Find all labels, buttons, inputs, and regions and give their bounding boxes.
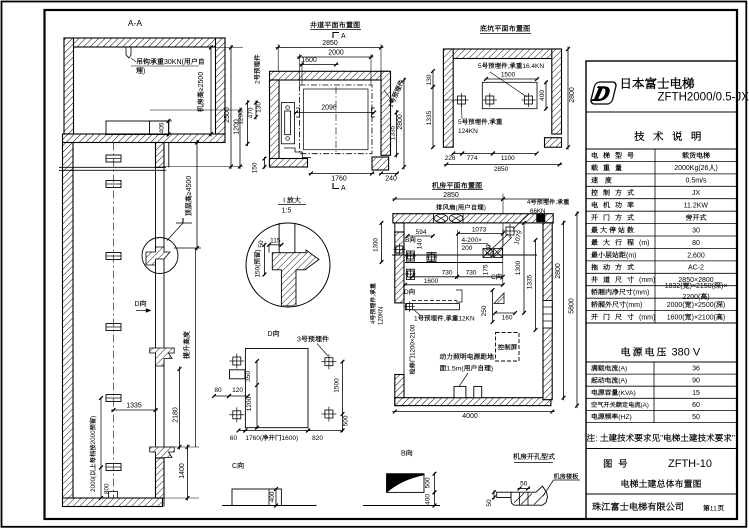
svg-text:2000(: 2000( (667, 302, 686, 309)
shaft plan title (310, 21, 360, 28)
detail I label underline (278, 204, 306, 206)
svg-text:I: I (283, 198, 285, 205)
C view label (232, 462, 244, 470)
landing bracket hatched (bottom) (150, 447, 175, 465)
leader 5hao to plates (490, 72, 527, 97)
dim 1200 vertical left (238, 110, 245, 125)
svg-text:1335: 1335 (426, 110, 433, 125)
company name bottom (592, 502, 683, 511)
detail I label (283, 197, 301, 205)
svg-text:66KN: 66KN (530, 208, 545, 215)
detail I scale 1:5 (282, 208, 292, 215)
pit plan title underline (480, 33, 531, 35)
machine room right wall (A-A) (216, 38, 226, 134)
opening detail title (513, 453, 554, 459)
svg-text:2000: 2000 (90, 430, 97, 445)
machine room top wall (A-A) (64, 38, 225, 47)
landing bracket hatched (mid) (150, 348, 175, 366)
label 66KN (530, 208, 545, 215)
svg-text::: : (595, 433, 597, 443)
label D-dir (plan) (404, 289, 415, 296)
svg-text:30: 30 (692, 227, 700, 234)
spec row line 7 (586, 235, 737, 237)
buffer block at pit floor (109, 492, 118, 499)
svg-text:774: 774 (467, 155, 478, 162)
svg-text:D: D (135, 301, 140, 308)
cable box 1 on bottom wall (454, 386, 466, 397)
label slab (jifang louban) (554, 473, 578, 479)
machine room height dim line (210, 45, 212, 137)
label 2-hao embedment (rotated) (254, 55, 261, 84)
power row line 5 (586, 422, 737, 424)
spec row 11 value (678, 277, 713, 284)
dim 5800 rotated machine plan right (576, 211, 578, 408)
svg-text:120KN: 120KN (379, 307, 385, 325)
extension line right for 2850 (380, 44, 382, 72)
title block outer box (586, 61, 737, 519)
dim extension line right of holes (502, 229, 504, 285)
svg-text:1335: 1335 (527, 274, 534, 289)
dim 1073 (457, 233, 504, 235)
svg-text:): ) (90, 416, 97, 418)
svg-text:124KN: 124KN (458, 128, 478, 135)
small sill mark bottom of shaft area (456, 290, 462, 302)
hole edge lines (519, 492, 521, 505)
extension lines right of machine room (216, 47, 244, 49)
svg-text:80: 80 (692, 240, 700, 247)
spec row 2 label 载重量 (591, 164, 621, 170)
D view anchor plate top-left (233, 357, 241, 365)
power table divider (653, 362, 655, 423)
car inner size value line2 (overflow) (682, 293, 709, 301)
dim 2180 vertical (179, 367, 181, 450)
spec row line 9 (586, 260, 737, 262)
spec table divider (654, 149, 656, 323)
svg-text:90: 90 (692, 378, 700, 385)
detail I circle (246, 223, 330, 307)
spec row line 12 (586, 297, 737, 299)
spec row 5 label 电机功率 (592, 202, 634, 208)
machine room left wall lower (395, 375, 404, 406)
detail I dim 150 (rotated) (264, 244, 266, 276)
shaft plan right wall (381, 71, 391, 155)
spec row 8 value (692, 240, 700, 247)
label 120KN rotated left (379, 307, 385, 325)
svg-text:470: 470 (248, 107, 255, 118)
power row line 3 (586, 397, 737, 399)
svg-text:820: 820 (312, 435, 323, 442)
dim 470 vertical left (248, 107, 255, 118)
svg-text:(mm): (mm) (633, 290, 649, 297)
opening detail slab outline left bar (497, 492, 511, 497)
cable box 2 on bottom wall (474, 386, 482, 397)
label 4-hao embedment 66KN line1 (527, 199, 569, 206)
B view rect (387, 474, 425, 493)
svg-text:C: C (232, 463, 237, 470)
door line across opening (403, 303, 405, 375)
C view ground line (222, 505, 317, 507)
spec row 3 value (686, 178, 708, 185)
pit bottom slab (63, 498, 163, 507)
pit plan right wall (552, 49, 562, 134)
car inner rect (304, 89, 369, 150)
machine room plan title (432, 182, 482, 189)
tech spec heading (634, 131, 701, 141)
svg-text:): ) (491, 366, 493, 373)
svg-text:1073: 1073 (472, 227, 487, 234)
svg-text:1335: 1335 (126, 403, 142, 410)
svg-text:240: 240 (486, 244, 493, 255)
power row 3 value (692, 390, 700, 397)
dim extension line mid (457, 230, 459, 279)
power row 4 label (591, 402, 649, 409)
power row 2 label (591, 377, 627, 385)
svg-text:): ) (707, 294, 709, 301)
spec row line 6 (586, 223, 737, 225)
svg-text:140: 140 (417, 238, 424, 249)
shaft centerline dashed (113, 143, 115, 499)
svg-text:50: 50 (692, 414, 700, 421)
svg-text:): ) (255, 249, 262, 251)
dim 1500 (485, 78, 539, 80)
dim 730 right (457, 276, 503, 278)
company line divider (586, 493, 737, 495)
guide rail dim 2096 (295, 112, 375, 114)
bearing plate mid (427, 253, 436, 262)
svg-text:240: 240 (385, 176, 397, 183)
shaft plan title underline (310, 29, 361, 31)
power row 4 value (692, 402, 700, 409)
spec row 7 label 最大停站数 (591, 226, 633, 232)
detail I circle callout (142, 238, 178, 274)
svg-text:B: B (401, 451, 406, 458)
spec row 4 value (692, 190, 701, 197)
svg-text:1300: 1300 (373, 238, 380, 252)
dim 240 (385, 176, 397, 183)
top floor height dim line 4500 (196, 140, 198, 251)
bedplate height dim 405 (168, 120, 170, 137)
svg-text:D: D (404, 289, 409, 296)
D-direction view label (elevation) (135, 300, 147, 308)
dim 1400 vertical (187, 445, 189, 501)
spec row 6 value (686, 214, 706, 221)
svg-text:A: A (341, 33, 346, 40)
svg-text:2096: 2096 (321, 105, 337, 112)
svg-text:730: 730 (442, 270, 453, 277)
1-hao embedment bar (405, 304, 459, 310)
svg-text:50: 50 (486, 499, 493, 507)
detail I wall lines (278, 223, 280, 253)
svg-text:): ) (723, 314, 725, 321)
guiderail bracket 2 (106, 181, 121, 188)
D view dim 1200 rotated (246, 396, 253, 411)
detail I dim 50 (268, 245, 270, 253)
B view label (401, 450, 412, 458)
spec row line 10 (586, 272, 737, 274)
power row 5 label (592, 413, 632, 421)
right wall louver gap (543, 301, 552, 329)
svg-text:2,600: 2,600 (687, 252, 705, 259)
svg-text:1200: 1200 (246, 396, 253, 411)
shaft right wall line pair (155, 143, 157, 499)
svg-text:A-A: A-A (128, 18, 142, 28)
svg-text:5: 5 (458, 119, 462, 126)
dim 130 vertical left (256, 102, 263, 113)
D view anchor plate bottom-left (233, 411, 241, 419)
spec row 13 label 轿厢外尺寸(mm) (591, 301, 642, 309)
C view divider (268, 489, 270, 506)
right rail bracket symbol (372, 108, 376, 117)
power row 1 value (692, 366, 700, 373)
guiderail bracket 1 (106, 155, 121, 162)
svg-text:(m): (m) (639, 240, 650, 247)
machine room left wall (A-A) (64, 38, 74, 134)
dim 140 rotated (417, 238, 424, 249)
svg-text:1400: 1400 (179, 463, 186, 479)
svg-text:50: 50 (258, 240, 265, 248)
svg-text:405: 405 (159, 122, 166, 133)
svg-text:115: 115 (270, 238, 281, 245)
counterweight rod end bottom (286, 137, 290, 141)
opening detail dim 50 vertical (493, 490, 495, 499)
spec row line 2 (586, 173, 737, 175)
spec row line 11 (586, 285, 737, 287)
svg-text:30KN(: 30KN( (164, 59, 185, 66)
pit plan top wall (446, 49, 559, 59)
dim 2800 rotated machine plan right (563, 220, 565, 400)
dim 1300 left of wall (381, 222, 383, 263)
svg-text:80: 80 (214, 387, 222, 394)
svg-text:11: 11 (710, 506, 717, 513)
label hook capacity line2 (136, 67, 145, 75)
svg-text:(mm): (mm) (639, 277, 655, 284)
power table top line (586, 361, 737, 363)
svg-text:2800: 2800 (569, 87, 576, 103)
svg-text:≥4500: ≥4500 (186, 176, 193, 196)
power row 2 value (692, 378, 700, 385)
drawing title (622, 479, 701, 487)
svg-text:ZFTH-10: ZFTH-10 (668, 458, 712, 470)
detail I dim 115 (268, 244, 283, 246)
leader 1hao plan (414, 310, 420, 315)
leader power supply (459, 373, 468, 386)
machine room left wall upper joint (395, 223, 404, 232)
svg-text:2800: 2800 (555, 263, 562, 279)
svg-text:A: A (341, 185, 346, 192)
svg-text:1600(: 1600( (667, 314, 686, 321)
svg-text:D: D (268, 331, 273, 338)
power row line 4 (586, 409, 737, 411)
section mark A top (333, 33, 339, 39)
B view ground line (363, 505, 440, 507)
svg-text:500: 500 (425, 477, 432, 488)
spec row 9 label 最小层站距(m) (591, 251, 636, 259)
label 3-hao embedment (297, 336, 329, 344)
spec row 5 value (684, 203, 709, 210)
svg-text:2000Kg(26: 2000Kg(26 (674, 165, 708, 172)
svg-text:400: 400 (269, 491, 276, 502)
svg-text:): ) (484, 205, 486, 212)
svg-text:(mm): (mm) (639, 314, 655, 321)
svg-text:5: 5 (478, 63, 482, 70)
svg-text:1600): 1600) (282, 435, 299, 442)
leader slab (543, 480, 554, 496)
underline 4-200x (462, 242, 488, 244)
shaft plan left wall (270, 80, 280, 167)
dim 2800 rotated pit right (567, 47, 569, 150)
dim 1079 diagonal (513, 229, 524, 245)
svg-text:2800: 2800 (397, 114, 404, 130)
pit plan title (480, 25, 530, 32)
extension line for 2000 right (370, 54, 372, 85)
anchor plate right (525, 96, 533, 104)
power row 5 value (692, 414, 700, 421)
spec row 7 value (692, 227, 700, 234)
spec row 14 label 开门尺寸(mm) (591, 314, 655, 322)
dim 2500 vertical (right of section) (230, 45, 232, 169)
D view dim 350 rotated (256, 360, 258, 429)
svg-text:175: 175 (483, 264, 490, 275)
label power supply line1 (440, 353, 494, 359)
B view dim 400 rotated (434, 491, 436, 506)
svg-text:1500: 1500 (501, 72, 516, 79)
label 124KN line2 (458, 128, 478, 135)
counterweight rod end top (286, 106, 290, 110)
B view dim 500 rotated (434, 473, 436, 494)
svg-text:400: 400 (539, 90, 546, 101)
svg-text:400: 400 (425, 494, 432, 505)
svg-text:60: 60 (692, 402, 700, 409)
svg-text:(HZ): (HZ) (618, 414, 632, 421)
svg-text:(mm): (mm) (626, 302, 642, 309)
svg-text:B: B (405, 237, 409, 244)
dim 1300 rotated (523, 222, 525, 314)
power row line 1 (586, 373, 737, 375)
hook leader line (131, 58, 136, 62)
extension line pit floor (164, 446, 199, 448)
label 200 line2 (462, 245, 473, 252)
svg-text:1:5: 1:5 (282, 208, 292, 215)
flag I mark (182, 218, 184, 223)
spec row 8 label 最大行程(m) (591, 239, 649, 247)
power row 3 label (592, 389, 636, 397)
D view main rect (245, 349, 308, 428)
D-direction arrow (136, 310, 146, 312)
car centerline dash-dot (335, 87, 337, 152)
svg-text:12KN: 12KN (458, 316, 475, 323)
landing slab edge line below machine slab (168, 143, 170, 168)
spec row line 4 (586, 198, 737, 200)
svg-text:130: 130 (256, 102, 263, 113)
fan symbol white box (434, 214, 464, 223)
shaft left wall (elevation) (63, 143, 74, 499)
svg-text:): ) (716, 165, 718, 172)
svg-text:≥2500: ≥2500 (198, 72, 205, 92)
D view dim 1500 rotated (342, 361, 344, 415)
drawing number value (668, 458, 712, 470)
svg-text:36: 36 (692, 366, 700, 373)
spec row 3 label 速 度 (591, 177, 611, 183)
label top floor height >=4500 (rotated) (185, 176, 193, 216)
opening detail slab main block (511, 486, 548, 505)
spec row 2 value (674, 165, 718, 173)
beam end plate left lower (406, 269, 414, 279)
D view dim 80 (214, 387, 222, 394)
svg-text:)×2500(: )×2500( (692, 302, 717, 309)
machine room floor slab (A-A) (63, 134, 226, 143)
spec row 12 label 轿厢内净尺寸(mm) (591, 289, 649, 297)
company name (622, 77, 694, 89)
fan symbol ellipses (434, 214, 448, 222)
svg-text:2000: 2000 (328, 50, 344, 57)
machine room right wall (543, 223, 552, 400)
label 1-hao embedment (rotated diagonal) (387, 79, 406, 109)
svg-text:): ) (143, 68, 145, 75)
svg-text:15: 15 (692, 390, 700, 397)
anchor plate left (458, 96, 466, 104)
dim 2800 vertical right (403, 78, 405, 170)
machine room left wall upper (395, 232, 404, 303)
D view dim 120 (232, 387, 243, 394)
dim 1760 door (309, 173, 375, 175)
machine bedplate rectangle (106, 121, 169, 135)
drawing number label (604, 459, 627, 467)
D view dim 1760 net door 1600 (245, 435, 298, 442)
anchor plate middle (486, 96, 494, 104)
dim 400 rotated (pit) (545, 81, 547, 110)
svg-text:2200(: 2200( (682, 294, 701, 301)
hoist hook (126, 47, 131, 58)
D view 80/120 dim line (213, 395, 230, 397)
car outline dashed (300, 85, 373, 154)
leader 3hao (317, 344, 328, 357)
leader 124KN (461, 104, 464, 119)
rope holes squares (4-200x200) (483, 249, 492, 258)
model number (658, 92, 749, 104)
counterweight oblong (285, 111, 291, 135)
svg-text:250: 250 (481, 305, 488, 316)
label 4-hao embedment rotated left (370, 283, 377, 324)
label slab underline (554, 479, 581, 481)
svg-text:(KVA): (KVA) (618, 390, 636, 397)
extension line left for 2850 (277, 44, 279, 72)
svg-text:730: 730 (466, 270, 477, 277)
anchor plate left wall (396, 246, 403, 253)
label machine room height >=2500 (rotated) (197, 72, 205, 112)
left spacing dim line (100, 398, 102, 498)
svg-text:60: 60 (230, 435, 238, 442)
svg-text:): ) (723, 302, 725, 309)
svg-text:1832(: 1832( (665, 283, 684, 290)
svg-text:350: 350 (245, 371, 252, 382)
spec row 13 value (667, 301, 726, 309)
svg-text:0.5m/s: 0.5m/s (686, 178, 708, 185)
svg-text:3: 3 (297, 337, 301, 344)
spec row line 3 (586, 185, 737, 187)
svg-text:(A): (A) (618, 366, 627, 373)
logo outline and glyph (590, 82, 617, 106)
spec row 9 value (687, 252, 705, 259)
svg-text:1300: 1300 (515, 260, 522, 275)
anchor mark on top wall (537, 214, 546, 222)
dashed projection line (412, 300, 457, 302)
buffer plate group rect (482, 82, 537, 108)
detail I hatched bracket (T shape) (272, 250, 319, 306)
D view anchor plate top-right (325, 358, 333, 366)
D view anchor plate bottom-right (325, 410, 333, 418)
svg-text:1600: 1600 (424, 278, 439, 285)
svg-text:2850: 2850 (322, 40, 338, 47)
